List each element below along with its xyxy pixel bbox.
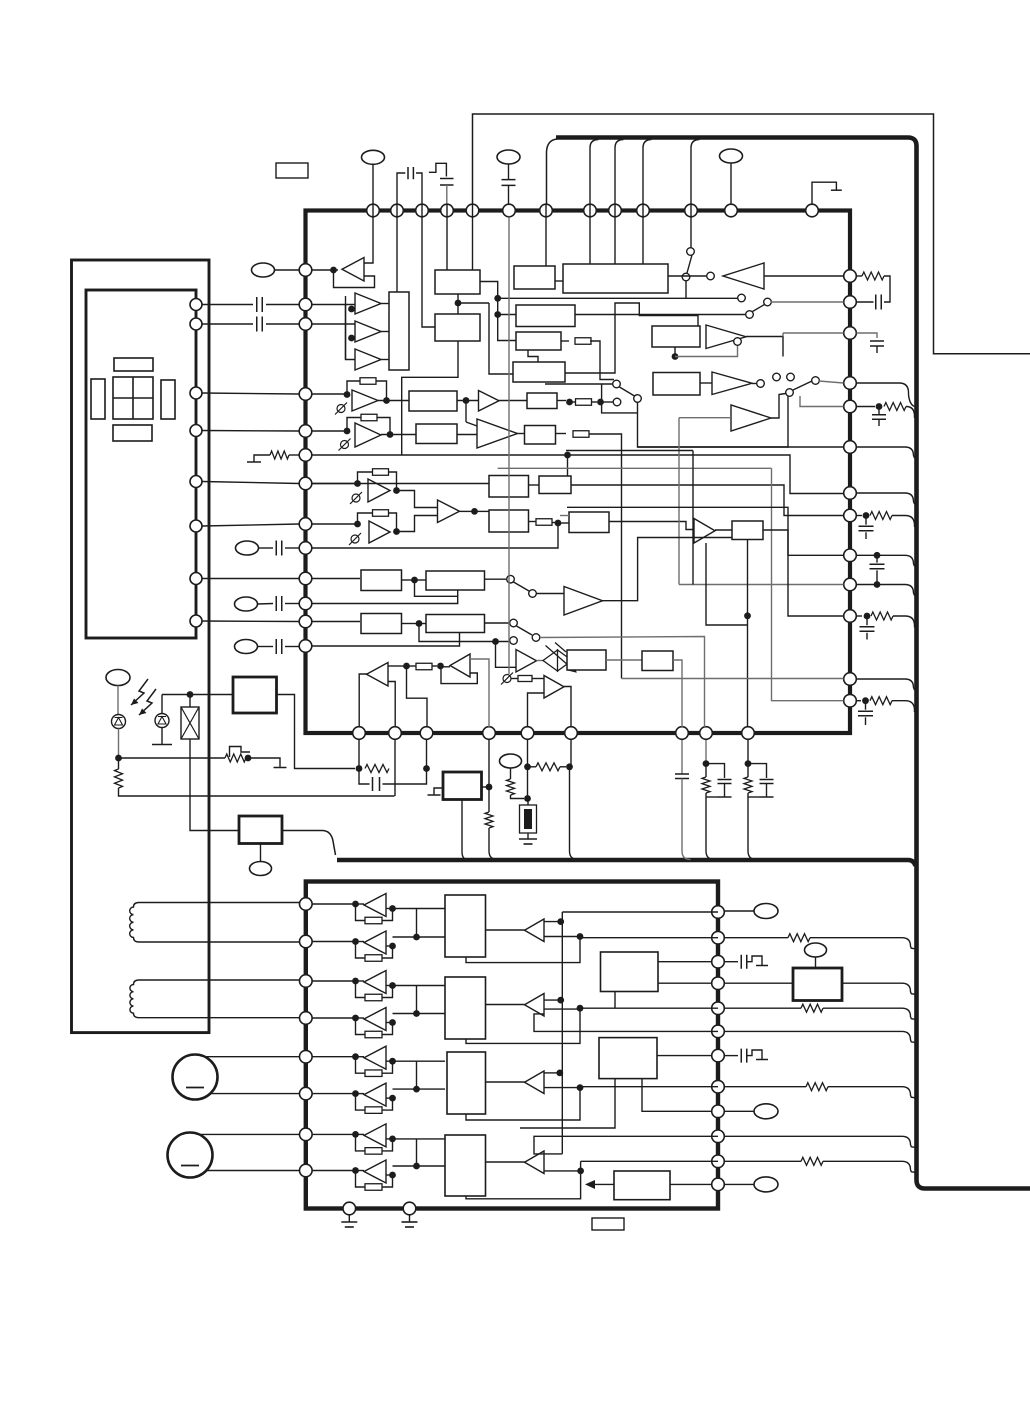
wire <box>557 400 566 402</box>
wire feedback <box>358 513 373 524</box>
capacitor C18 <box>718 780 732 784</box>
node <box>389 905 396 912</box>
op-amp A19 <box>516 650 537 673</box>
wire <box>876 555 878 562</box>
switch S7b <box>510 637 518 645</box>
wire <box>393 936 446 938</box>
wire <box>527 833 529 839</box>
wire <box>189 695 191 708</box>
wire <box>706 793 715 860</box>
wire <box>674 347 676 357</box>
wire <box>356 980 365 982</box>
wire <box>466 1088 580 1120</box>
node <box>566 399 573 406</box>
wire <box>686 297 738 299</box>
wire feedback <box>356 904 366 921</box>
wire <box>203 323 254 325</box>
wire <box>372 164 374 203</box>
pin <box>299 477 312 490</box>
resistor R30 <box>365 1107 382 1114</box>
block B20 <box>361 570 402 591</box>
wire <box>381 434 416 436</box>
wire <box>828 1087 916 1098</box>
wire <box>259 547 274 549</box>
op-amp A28 <box>364 1160 386 1183</box>
pin <box>299 597 312 610</box>
pin <box>299 640 312 653</box>
wire <box>312 1017 353 1019</box>
wire <box>488 740 490 812</box>
wire <box>381 331 389 333</box>
wire <box>393 1013 446 1015</box>
wire <box>705 764 707 777</box>
wire <box>356 903 365 905</box>
pin <box>676 727 689 740</box>
node <box>389 1136 396 1143</box>
switch S2b <box>764 298 772 306</box>
wire <box>545 204 547 266</box>
wire <box>567 455 569 476</box>
wire <box>800 396 844 407</box>
pin <box>353 727 366 740</box>
wire <box>819 381 844 383</box>
node <box>352 1053 359 1060</box>
pin <box>712 1049 725 1062</box>
wire <box>766 784 768 798</box>
connector J13 <box>754 1104 778 1119</box>
node <box>864 613 871 620</box>
node <box>874 552 881 559</box>
node <box>413 1010 420 1017</box>
wire <box>771 394 786 419</box>
wire <box>725 1183 755 1185</box>
wire <box>589 204 591 264</box>
wire <box>486 929 525 931</box>
wire <box>498 314 516 316</box>
wire <box>700 382 712 384</box>
wire <box>386 1138 393 1140</box>
wire <box>386 1060 393 1062</box>
pin <box>441 204 454 217</box>
wire <box>589 434 622 679</box>
switch S5a <box>613 380 621 388</box>
wire <box>529 484 540 486</box>
switch S5 lever <box>620 387 635 396</box>
pin <box>712 906 725 919</box>
pin <box>712 1155 725 1168</box>
jumper step <box>230 747 251 758</box>
pin <box>190 318 202 330</box>
wire <box>393 1138 417 1140</box>
wire <box>466 422 477 426</box>
wire <box>383 769 427 785</box>
wire <box>842 983 916 994</box>
op-amp A31 <box>525 1071 545 1094</box>
op-amp A20 <box>544 676 564 699</box>
pin <box>299 615 312 628</box>
op-amp A21 <box>364 894 386 917</box>
wire <box>537 660 544 662</box>
wire <box>544 1008 580 1010</box>
pin <box>844 377 857 390</box>
wire <box>485 578 507 580</box>
wire <box>568 455 844 494</box>
wire <box>558 522 569 524</box>
op-amp A2 <box>355 293 381 314</box>
op-amp A26 <box>364 1083 386 1106</box>
wire <box>764 275 844 277</box>
key bottom <box>113 425 152 441</box>
resistor R14 <box>870 512 892 520</box>
connector J14 <box>754 1177 778 1192</box>
wire <box>389 513 397 532</box>
wire <box>715 529 732 531</box>
block B22 <box>361 614 402 634</box>
wire feedback <box>356 1057 366 1074</box>
pin <box>299 425 312 438</box>
wire <box>591 401 597 403</box>
wire <box>690 204 692 248</box>
wire <box>359 769 370 785</box>
pin <box>300 898 313 911</box>
pin <box>712 1178 725 1191</box>
wire <box>520 1079 615 1128</box>
wire <box>489 828 498 860</box>
resistor R3 <box>360 378 376 385</box>
motor M1 bar <box>186 1087 204 1089</box>
pin <box>712 977 725 990</box>
wire feedback <box>356 1094 366 1111</box>
wire <box>725 1055 739 1057</box>
capacitor C14 <box>860 627 875 632</box>
block B3 <box>435 314 480 341</box>
wire <box>528 350 538 362</box>
wire <box>498 297 686 299</box>
wire <box>747 740 749 764</box>
ground <box>274 767 287 769</box>
wire <box>609 522 694 530</box>
wire <box>378 400 409 402</box>
op-amp A30 <box>525 994 545 1017</box>
wire <box>416 909 418 938</box>
block B10 <box>653 373 700 396</box>
resistor R1 <box>270 451 289 459</box>
node <box>863 512 870 519</box>
capacitor C6 <box>276 541 282 556</box>
node <box>455 300 462 307</box>
wire V+ bus top/right <box>556 138 1030 1189</box>
pin <box>844 270 857 283</box>
wire <box>857 301 874 303</box>
wire <box>426 740 428 769</box>
pin <box>844 441 857 454</box>
resistor R23 <box>702 777 710 793</box>
wire <box>670 1183 712 1185</box>
node <box>389 1095 396 1102</box>
block B14 <box>525 426 556 445</box>
light arrow <box>131 679 148 705</box>
wire <box>496 642 517 668</box>
wire <box>417 908 446 910</box>
wire feedback <box>347 381 360 395</box>
wire <box>285 603 299 605</box>
node <box>411 577 418 584</box>
wire <box>386 945 393 947</box>
wire <box>485 622 510 624</box>
capacitor C19 <box>760 780 774 784</box>
node <box>352 1167 359 1174</box>
pin <box>300 1050 313 1063</box>
connector J6 <box>235 597 258 611</box>
wire <box>622 678 844 680</box>
connector J5 <box>236 541 259 555</box>
wire <box>706 543 748 625</box>
wire <box>312 454 567 456</box>
wire <box>482 786 490 788</box>
wire <box>570 740 572 767</box>
wire <box>312 483 358 485</box>
wire <box>544 1170 581 1172</box>
wire feedback <box>358 472 373 484</box>
pin <box>389 727 402 740</box>
wire <box>527 799 529 806</box>
pin <box>299 572 312 585</box>
wire <box>312 523 358 525</box>
switch S2 lever <box>753 305 765 312</box>
pin <box>300 1012 313 1025</box>
node <box>403 663 410 670</box>
resistor R26 <box>365 955 382 962</box>
resistor R2 <box>575 338 591 345</box>
capacitor C15 <box>858 711 873 716</box>
connector J3 <box>720 149 743 163</box>
coil L2 <box>130 980 139 1018</box>
wire <box>312 304 356 306</box>
op-amp A27 <box>364 1124 386 1147</box>
wire <box>580 1007 718 1009</box>
capacitor C1 <box>408 167 413 179</box>
ground <box>247 461 261 463</box>
wire <box>446 204 448 270</box>
op-amp A3 <box>355 321 381 342</box>
resistor R28 <box>365 1031 382 1038</box>
wire bus drop <box>615 140 624 205</box>
wire <box>581 1160 718 1162</box>
node <box>874 581 881 588</box>
wire <box>614 204 616 264</box>
node <box>413 1086 420 1093</box>
op-amp A25 <box>364 1046 386 1069</box>
wire <box>866 616 868 625</box>
wire <box>376 381 387 400</box>
crystal X2 <box>181 707 199 739</box>
wire <box>161 728 163 745</box>
ground <box>409 1216 411 1223</box>
reg block B28 <box>443 772 482 800</box>
wire <box>466 938 580 963</box>
wire <box>706 796 718 798</box>
wire <box>457 434 477 436</box>
node <box>557 918 564 925</box>
wire <box>382 1175 393 1187</box>
wire <box>356 941 365 943</box>
pin <box>712 1025 725 1038</box>
node <box>577 1168 584 1175</box>
wire <box>544 1072 560 1074</box>
wire <box>508 164 510 179</box>
wire <box>602 384 638 413</box>
switch S4 lever <box>793 381 812 390</box>
switch S4 contact <box>757 380 765 388</box>
wire <box>210 1093 300 1095</box>
wire <box>460 510 473 512</box>
motor M2 bar <box>181 1165 199 1167</box>
wire <box>397 516 438 532</box>
wire <box>254 455 270 462</box>
node <box>577 1084 584 1091</box>
wire <box>203 482 300 484</box>
block B2 <box>435 270 480 294</box>
wire <box>679 417 731 419</box>
wire <box>382 1023 393 1035</box>
switch S1 lever <box>687 255 692 273</box>
node <box>348 335 355 342</box>
block B11 <box>409 391 457 411</box>
wire <box>289 454 299 456</box>
wire <box>386 985 393 987</box>
wire <box>603 538 733 601</box>
pin <box>844 578 857 591</box>
pin <box>300 1164 313 1177</box>
capacitor C4 <box>257 297 263 312</box>
node <box>876 403 883 410</box>
wire <box>260 844 262 862</box>
capacitor C21 <box>741 1049 747 1063</box>
servo block B26 <box>233 677 277 713</box>
wire <box>570 767 579 860</box>
wire <box>857 406 876 408</box>
op-amp A4 <box>355 349 381 370</box>
wire <box>747 612 749 727</box>
wire <box>511 678 518 680</box>
wire <box>266 304 299 306</box>
wire <box>657 1055 712 1057</box>
wire <box>312 1133 353 1135</box>
osc block B27 <box>239 816 282 844</box>
logic block B29 <box>445 895 486 957</box>
wire <box>139 979 300 981</box>
node <box>352 1131 359 1138</box>
ground bar <box>345 1226 354 1228</box>
wire <box>386 1097 393 1099</box>
pin <box>844 549 857 562</box>
wire <box>458 302 489 304</box>
wire <box>393 1060 417 1062</box>
wire feedback <box>356 1018 366 1035</box>
wire <box>857 679 917 690</box>
wire <box>544 999 561 1001</box>
wire <box>312 1056 353 1058</box>
resistor R15 <box>871 612 893 620</box>
wire <box>498 467 772 469</box>
node <box>564 452 571 459</box>
node <box>463 397 470 404</box>
resistor R21 <box>507 779 515 795</box>
pin <box>300 1128 313 1141</box>
wire <box>556 433 567 435</box>
node <box>555 520 562 527</box>
wire <box>381 359 389 361</box>
wire <box>402 623 417 625</box>
connector J7 <box>235 640 258 654</box>
capacitor C20 <box>741 955 747 969</box>
wire <box>810 938 916 949</box>
pin <box>299 264 312 277</box>
wire <box>393 985 417 987</box>
wire <box>857 447 917 458</box>
connector J2 <box>497 150 520 164</box>
node <box>437 663 444 670</box>
capacitor C16 <box>373 777 380 791</box>
wire <box>562 911 718 913</box>
node <box>494 295 501 302</box>
capacitor C11 <box>872 415 886 420</box>
wire <box>285 547 299 549</box>
wire <box>673 660 682 727</box>
resistor R17 <box>115 769 123 788</box>
wire <box>205 1056 300 1058</box>
resistor R18 <box>225 754 246 762</box>
switch S4c <box>812 377 820 385</box>
pin <box>742 727 755 740</box>
wire <box>638 396 789 447</box>
wire <box>725 1160 802 1162</box>
wire <box>312 621 361 623</box>
resistor R31 <box>365 1148 382 1155</box>
LED D2 <box>155 714 169 728</box>
wire <box>139 1017 300 1019</box>
pin <box>712 1002 725 1015</box>
node <box>524 763 531 770</box>
wire <box>382 1098 393 1110</box>
pin <box>300 935 313 948</box>
wire <box>681 740 683 774</box>
wire <box>465 401 467 423</box>
wire <box>466 1008 580 1043</box>
wire <box>416 1061 418 1089</box>
wire <box>312 1170 353 1172</box>
capacitor C8 <box>276 639 282 654</box>
wire <box>544 921 561 923</box>
wire <box>752 383 757 385</box>
motor M2 <box>168 1133 213 1178</box>
wire <box>381 303 389 305</box>
wire <box>725 1007 802 1009</box>
resistor R11 <box>518 676 532 682</box>
wire <box>396 204 398 292</box>
switch S1b <box>682 273 690 281</box>
wire <box>508 217 510 675</box>
node <box>352 978 359 985</box>
wire <box>417 1138 446 1140</box>
pin <box>712 1105 725 1118</box>
node <box>344 428 351 435</box>
block B6 <box>516 305 575 327</box>
wire <box>457 590 459 596</box>
wire <box>884 276 890 302</box>
op-amp A7b <box>731 405 771 431</box>
wire <box>892 701 915 712</box>
